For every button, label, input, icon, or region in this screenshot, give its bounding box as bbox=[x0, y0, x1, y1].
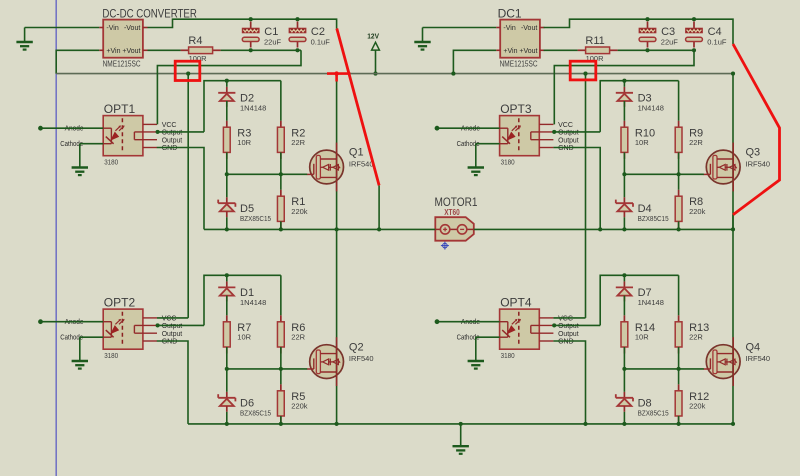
wire: OPT3 anode bbox=[435, 126, 500, 131]
wire: OPT4 anode bbox=[435, 319, 500, 324]
svg-text:Anode: Anode bbox=[65, 126, 84, 133]
optocoupler OPT3 3180 bbox=[457, 102, 579, 166]
ground (OPT3 cathode) bbox=[468, 144, 484, 175]
svg-text:DC1: DC1 bbox=[498, 7, 522, 21]
node: D2 top rail bbox=[225, 79, 229, 83]
node: C3 top bbox=[645, 17, 649, 21]
wire: -Vout to top rail (right) bbox=[544, 19, 733, 44]
svg-text:Anode: Anode bbox=[461, 319, 480, 326]
node: C4 top bbox=[692, 17, 696, 21]
ground (OPT2 cathode) bbox=[72, 337, 88, 368]
svg-text:BZX85C15: BZX85C15 bbox=[240, 408, 271, 417]
optocoupler OPT1 3180 bbox=[60, 102, 182, 166]
diode D3 1N4148 bbox=[616, 87, 664, 113]
optocoupler OPT2 3180 bbox=[60, 296, 182, 360]
wire: +Vin to +12V bus (left) bbox=[56, 50, 99, 73]
wire: D4 column bbox=[623, 174, 625, 229]
wire: OPT2 output to gate network bbox=[156, 275, 281, 327]
wire: D5 column bbox=[226, 174, 228, 229]
wire: -Vin to ground (top-right) bbox=[423, 27, 497, 29]
node: C4 bottom bbox=[692, 48, 696, 52]
mosfet Q3 IRF540 bbox=[703, 147, 770, 184]
resistor R12 220k bbox=[675, 384, 709, 422]
svg-text:BZX85C15: BZX85C15 bbox=[638, 408, 669, 417]
svg-text:Anode: Anode bbox=[65, 319, 84, 326]
svg-text:Output: Output bbox=[162, 130, 183, 137]
wire: D8 column bbox=[623, 369, 625, 424]
wire: R4 output to C1/C2 and VCC feed (left) bbox=[148, 50, 302, 124]
wire: D2/R3 column bbox=[226, 81, 228, 175]
svg-text:10R: 10R bbox=[237, 333, 251, 342]
svg-text:OPT3: OPT3 bbox=[500, 102, 532, 116]
pin stubs: Q1 drain/source (red) bbox=[336, 143, 338, 192]
svg-text:3180: 3180 bbox=[104, 157, 118, 166]
svg-text:12V: 12V bbox=[367, 31, 379, 40]
svg-text:22uF: 22uF bbox=[661, 37, 679, 46]
svg-text:OPT2: OPT2 bbox=[104, 296, 136, 310]
wire: R12 column bbox=[678, 369, 680, 424]
svg-text:IRF540: IRF540 bbox=[349, 160, 374, 169]
node: bus junction DC1 +Vin bbox=[451, 72, 455, 76]
ground (top-right input) bbox=[414, 28, 430, 50]
svg-text:GND: GND bbox=[162, 339, 178, 346]
svg-text:XT60: XT60 bbox=[444, 208, 460, 217]
node: D7 top rail bbox=[622, 273, 626, 277]
svg-text:22uF: 22uF bbox=[264, 37, 282, 46]
wire: OPT4 output to gate network bbox=[552, 275, 678, 327]
highlight: red square marker (left) bbox=[175, 61, 200, 80]
DC-DC converter DC1 (NME1215SC) top-right bbox=[496, 7, 544, 69]
wire: +12V horizontal bus bbox=[56, 73, 733, 75]
svg-text:10R: 10R bbox=[237, 138, 251, 147]
svg-text:3180: 3180 bbox=[501, 157, 515, 166]
resistor R2 22R bbox=[277, 121, 305, 159]
wire: OPT1 output to gate network bbox=[156, 81, 281, 134]
wire: OPT1 cathode bbox=[80, 143, 103, 145]
wire: OPT2 cathode bbox=[80, 336, 103, 338]
wire: D6 column bbox=[226, 369, 228, 424]
resistor R3 10R bbox=[223, 121, 251, 159]
ground (bottom rail) bbox=[453, 422, 469, 454]
svg-text:+Vin: +Vin bbox=[106, 48, 120, 55]
svg-text:Output: Output bbox=[558, 331, 579, 338]
svg-text:22R: 22R bbox=[291, 333, 305, 342]
svg-text:1N4148: 1N4148 bbox=[240, 104, 266, 113]
highlight: red square marker (right) bbox=[570, 61, 596, 80]
svg-text:IRF540: IRF540 bbox=[349, 354, 374, 363]
zener diode D6 BZX85C15 bbox=[218, 392, 271, 418]
svg-text:MOTOR1: MOTOR1 bbox=[435, 195, 478, 209]
wire: gate row upper-left bbox=[225, 172, 307, 176]
wire: -Vout to top rail (left) bbox=[148, 19, 337, 28]
svg-text:0.1uF: 0.1uF bbox=[707, 37, 727, 46]
wire: R8 column bbox=[678, 174, 680, 229]
svg-text:Q4: Q4 bbox=[746, 341, 761, 353]
optocoupler OPT4 3180 bbox=[457, 296, 579, 360]
pin stubs: Q4 drain/source (red) bbox=[732, 337, 734, 386]
ground (top-left input) bbox=[16, 28, 32, 50]
component origin marker (blue crosshair) bbox=[441, 242, 449, 250]
svg-text:Anode: Anode bbox=[461, 126, 480, 133]
diode D1 1N4148 bbox=[218, 281, 266, 307]
wire: D1/R7 column bbox=[226, 275, 228, 369]
sheet border (blue vertical line) bbox=[55, 0, 57, 476]
wire: R2 column bbox=[280, 81, 282, 175]
wire: Q3/Q4 drain-source column bbox=[732, 74, 734, 424]
resistor R5 220k bbox=[277, 384, 307, 422]
svg-text:+Vin: +Vin bbox=[503, 48, 517, 55]
zener diode D8 BZX85C15 bbox=[616, 392, 669, 418]
wire: OPT2 GND to bottom rail bbox=[157, 341, 188, 424]
zener diode D4 BZX85C15 bbox=[616, 197, 669, 223]
capacitor C3 22uF bbox=[639, 22, 678, 48]
resistor R6 22R bbox=[277, 315, 305, 353]
wire: gate row upper-right bbox=[622, 172, 703, 176]
mosfet Q1 IRF540 bbox=[307, 147, 374, 184]
resistor R4 100R bbox=[181, 35, 221, 63]
highlight: red tee on bus at Q1 drain bbox=[327, 71, 350, 81]
wire: OPT3 output to gate network bbox=[552, 81, 678, 134]
svg-text:1N4148: 1N4148 bbox=[240, 298, 266, 307]
diode D7 1N4148 bbox=[616, 281, 664, 307]
resistor R14 10R bbox=[621, 315, 655, 353]
svg-text:1N4148: 1N4148 bbox=[638, 298, 664, 307]
node: C2 bottom bbox=[295, 48, 299, 52]
resistor R8 220k bbox=[675, 190, 705, 228]
highlight: red wire diagonal (left) bbox=[337, 29, 379, 186]
wire: bus to OPT2 VCC riser bbox=[157, 74, 188, 318]
svg-text:R4: R4 bbox=[188, 35, 202, 47]
svg-text:Output: Output bbox=[558, 323, 579, 330]
svg-text:0.1uF: 0.1uF bbox=[311, 37, 331, 46]
node: C3 bottom bbox=[645, 48, 649, 52]
svg-text:IRF540: IRF540 bbox=[746, 160, 771, 169]
svg-text:NME1215SC: NME1215SC bbox=[103, 58, 141, 68]
node: D1 top rail bbox=[225, 273, 229, 277]
node: bus junction at red marker (left) bbox=[186, 72, 190, 76]
wire: bus to OPT4 VCC riser bbox=[553, 74, 585, 318]
svg-text:Output: Output bbox=[162, 137, 183, 144]
svg-text:OPT4: OPT4 bbox=[500, 296, 532, 310]
DC-DC converter module (NME1215SC) top-left with title DC-DC CONVERTER bbox=[99, 7, 197, 69]
wire: Q1/Q2 drain-source column bbox=[336, 82, 338, 424]
svg-text:+Vout: +Vout bbox=[122, 48, 140, 55]
wire: -Vin to ground (top-left) bbox=[25, 27, 100, 29]
highlight: red wire path (right) bbox=[733, 44, 780, 215]
wire: D3/R10 column bbox=[623, 81, 625, 175]
svg-text:GND: GND bbox=[558, 339, 574, 346]
svg-text:-Vin: -Vin bbox=[106, 25, 118, 32]
wire: OPT1 anode bbox=[38, 126, 103, 131]
wire: +Vin to +12V bus (right) bbox=[453, 50, 496, 73]
wire: OPT2 anode bbox=[38, 319, 103, 324]
resistor R1 220k bbox=[277, 190, 307, 228]
motor connector MOTOR1 XT60 bbox=[435, 195, 478, 241]
node: C2 top bbox=[295, 17, 299, 21]
wire: R5 column bbox=[280, 369, 282, 424]
mosfet Q2 IRF540 bbox=[307, 341, 374, 378]
pin stubs: Q3 drain/source (red) bbox=[732, 143, 734, 192]
wire: left phase rail to MOTOR1 bbox=[204, 227, 435, 231]
wire: OPT3 GND to phase rail bbox=[553, 148, 602, 232]
svg-text:R11: R11 bbox=[585, 35, 604, 47]
node: C1 bottom bbox=[249, 48, 253, 52]
svg-text:Output: Output bbox=[558, 130, 579, 137]
wire: R1 column bbox=[280, 174, 282, 229]
svg-text:3180: 3180 bbox=[501, 351, 515, 360]
ground (OPT4 cathode) bbox=[468, 337, 484, 368]
wire: R6 column bbox=[280, 275, 282, 369]
svg-text:Output: Output bbox=[558, 137, 579, 144]
resistor R9 22R bbox=[675, 121, 703, 159]
resistor R7 10R bbox=[223, 315, 251, 353]
resistor R13 22R bbox=[675, 315, 709, 353]
node: C1 top bbox=[249, 17, 253, 21]
diode D2 1N4148 bbox=[218, 87, 266, 113]
svg-text:Output: Output bbox=[162, 331, 183, 338]
svg-text:22R: 22R bbox=[291, 138, 305, 147]
svg-text:Q1: Q1 bbox=[349, 147, 364, 159]
svg-text:+Vout: +Vout bbox=[519, 48, 537, 55]
capacitor C1 22uF bbox=[242, 22, 281, 48]
svg-text:VCC: VCC bbox=[162, 316, 177, 323]
svg-text:Q2: Q2 bbox=[349, 341, 364, 353]
svg-text:220k: 220k bbox=[689, 207, 706, 216]
svg-text:3180: 3180 bbox=[104, 351, 118, 360]
wire: gate row lower-left bbox=[225, 367, 307, 371]
svg-text:-Vout: -Vout bbox=[521, 25, 537, 32]
capacitor C2 0.1uF bbox=[289, 22, 330, 48]
pin stubs: Q2 drain/source (red) bbox=[336, 337, 338, 386]
wire: R9 column bbox=[678, 81, 680, 175]
svg-text:GND: GND bbox=[558, 145, 574, 152]
wire: red diag tail to phase rail (left) bbox=[378, 185, 380, 229]
svg-text:BZX85C15: BZX85C15 bbox=[240, 214, 271, 223]
wire: OPT3 cathode bbox=[476, 143, 500, 145]
svg-text:-Vout: -Vout bbox=[124, 25, 140, 32]
svg-text:GND: GND bbox=[162, 145, 178, 152]
node: bus end junction (right) bbox=[731, 72, 735, 76]
resistor R11 100R bbox=[578, 35, 618, 63]
svg-text:NME1215SC: NME1215SC bbox=[500, 58, 538, 68]
mosfet Q4 IRF540 bbox=[703, 341, 770, 378]
svg-text:10R: 10R bbox=[635, 138, 649, 147]
node: D3 top rail bbox=[622, 79, 626, 83]
capacitor C4 0.1uF bbox=[686, 22, 727, 48]
svg-text:VCC: VCC bbox=[162, 122, 177, 129]
ground (OPT1 cathode) bbox=[72, 144, 88, 175]
node: bus junction at red marker (right) bbox=[583, 72, 587, 76]
svg-text:10R: 10R bbox=[635, 333, 649, 342]
resistor R10 10R bbox=[621, 121, 655, 159]
wire: red wire tail to phase rail (right) bbox=[732, 215, 734, 230]
wire: OPT1 GND to phase rail bbox=[157, 148, 204, 230]
svg-text:BZX85C15: BZX85C15 bbox=[638, 214, 669, 223]
svg-text:-Vin: -Vin bbox=[503, 25, 515, 32]
svg-text:220k: 220k bbox=[291, 402, 308, 411]
svg-text:Output: Output bbox=[162, 323, 183, 330]
svg-text:220k: 220k bbox=[291, 207, 308, 216]
power flag 12V bbox=[367, 31, 379, 75]
wire: R11 output to C3/C4 and VCC feed (right) bbox=[544, 50, 694, 124]
wire: R13 column bbox=[678, 275, 680, 369]
wire: right phase rail from MOTOR1 bbox=[474, 227, 735, 231]
svg-text:1N4148: 1N4148 bbox=[638, 104, 664, 113]
wire: OPT4 cathode bbox=[476, 336, 500, 338]
wire: gate row lower-right bbox=[622, 367, 703, 371]
wire: OPT4 GND to bottom rail bbox=[553, 341, 585, 424]
svg-text:OPT1: OPT1 bbox=[104, 102, 136, 116]
svg-text:IRF540: IRF540 bbox=[746, 354, 771, 363]
svg-text:22R: 22R bbox=[689, 138, 703, 147]
svg-text:22R: 22R bbox=[689, 333, 703, 342]
wire: D7/R14 column bbox=[623, 275, 625, 369]
svg-text:VCC: VCC bbox=[558, 122, 573, 129]
wire: bottom ground rail bbox=[188, 422, 735, 426]
svg-text:Q3: Q3 bbox=[746, 147, 761, 159]
svg-text:VCC: VCC bbox=[558, 316, 573, 323]
svg-text:220k: 220k bbox=[689, 402, 706, 411]
zener diode D5 BZX85C15 bbox=[218, 197, 271, 223]
